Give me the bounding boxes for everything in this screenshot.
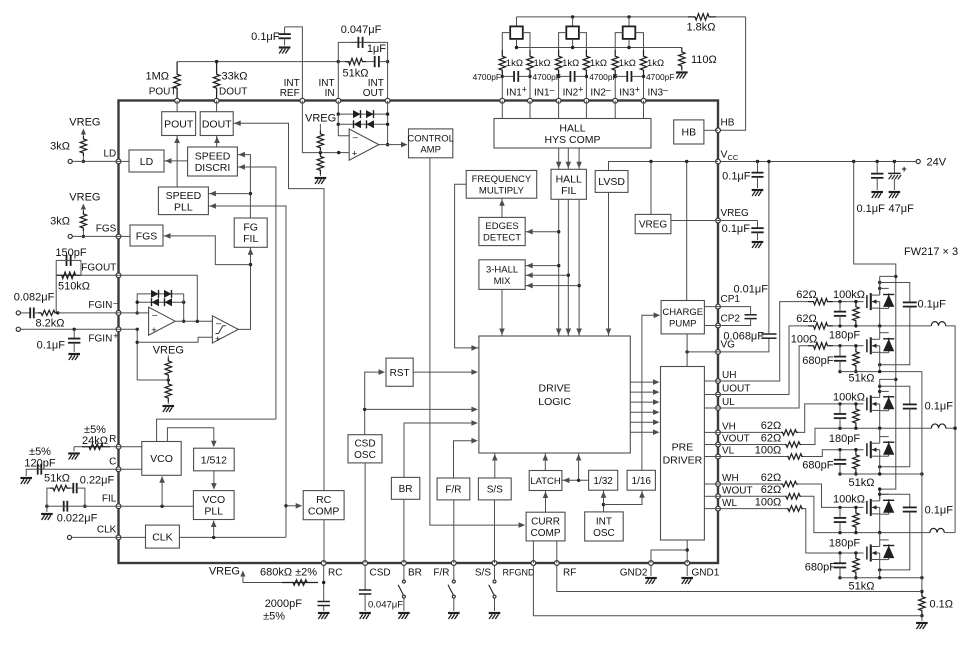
wire R pin to VCO [119,446,142,448]
terminal CLK input [67,535,71,539]
wire FIL to VCO and VCO PLL [119,505,194,507]
pin HB [716,128,721,133]
pin RC [321,561,326,566]
pin RF [554,561,559,566]
svg-text:VREG: VREG [69,117,100,129]
svg-text:HB: HB [721,118,735,129]
block LATCH [529,471,562,491]
FIL loop filter: 51kΩ + 0.22uF branch [47,488,50,506]
svg-text:+: + [215,334,221,345]
svg-text:0.1μF: 0.1μF [251,31,280,43]
wire INT IN to A3 - [338,101,349,136]
resistor 33kΩ (DOUT) [213,62,219,101]
svg-text:150pF: 150pF [55,247,86,259]
svg-text:–: – [663,85,668,95]
svg-text:100Ω: 100Ω [791,334,818,346]
block BR [391,477,419,499]
svg-text:RST: RST [390,368,410,379]
pin IN1− [528,98,533,103]
svg-text:CONTROL: CONTROL [407,133,453,144]
svg-text:FG: FG [243,222,258,234]
wire FGIN- to A1 [136,311,139,314]
svg-text:DETECT: DETECT [483,233,521,244]
wire BR to DRIVE LOGIC [404,423,472,477]
pin GND1 [685,561,690,566]
capacitor 0.082uF (FGIN-) [20,312,26,314]
capacitor 680pF + resistor 51kΩ (V low gate) [838,448,841,451]
resistor 1kΩ col1 [499,50,505,76]
wire hall pin to HYS COMP [558,101,560,119]
svg-text:3kΩ: 3kΩ [50,141,70,153]
svg-text:1MΩ: 1MΩ [145,71,169,83]
block RC COMP [303,491,344,520]
wire hall pin to HYS COMP [643,101,645,119]
capacitor 4700pF IN3 [615,75,627,77]
svg-text:PUMP: PUMP [669,318,696,329]
wire HYS COMP to HALL FIL [567,148,569,169]
wire VOUT + resistor 62Ω [718,444,785,446]
wire GND2 tie [651,550,687,563]
pin INT IN [336,98,341,103]
svg-text:OSC: OSC [593,528,615,539]
switch S/S [494,565,496,579]
wire EDGES DETECT to FREQ MULTIPLY [501,198,503,217]
svg-text:680pF: 680pF [805,562,836,574]
wire BR to pin [403,499,405,563]
wire LVSD to DRIVE LOGIC [608,192,610,336]
wires DRIVE LOGIC to PRE DRIVER [630,381,654,383]
pin IN1+ [500,98,505,103]
wires PRE DRIVER outputs to pins [704,380,718,382]
svg-text:LOGIC: LOGIC [538,396,571,408]
wire hall pin to HYS COMP [501,101,503,119]
svg-text:4700pF: 4700pF [646,72,674,82]
U source rail [840,371,922,373]
op-amp A1 FG amplifier [149,307,176,335]
svg-text:FW217 × 3: FW217 × 3 [904,246,958,258]
svg-text:LD: LD [104,149,117,160]
svg-text:VOUT: VOUT [722,434,750,445]
wire HALL FIL tap to EDGES DETECT [557,230,560,233]
pin WH [716,482,721,487]
wire CURR COMP to RF pin [556,541,558,563]
wire HALL FIL to DRIVE LOGIC [567,199,569,336]
svg-text:CLK: CLK [152,531,172,543]
svg-text:INT: INT [596,516,612,527]
pin CP1 [716,304,721,309]
resistor 1MΩ (POUT) [174,62,180,101]
svg-text:110Ω: 110Ω [691,54,717,66]
wire DOUT box to pin [216,101,218,112]
capacitor 180pF + resistor 100kΩ (W high gate) [838,506,841,509]
block VCO PLL [193,491,234,520]
wire HYS COMP to HALL FIL [578,148,580,169]
capacitor 180pF + resistor 100kΩ (U high gate) [838,300,841,303]
svg-text:IN2: IN2 [563,88,579,99]
svg-text:UOUT: UOUT [722,384,750,395]
svg-text:1kΩ: 1kΩ [506,58,523,69]
wire F/R to pin [453,500,455,563]
wire A2 output to FG FIL [238,247,250,329]
RC timing network VREG/680k/2000pF [323,565,325,597]
svg-text:VCO: VCO [202,494,225,506]
pin IN2− [584,98,589,103]
svg-text:CC: CC [728,153,739,162]
VCC rail to 24V [718,161,916,163]
svg-text:SPEED: SPEED [195,151,231,163]
svg-text:1kΩ: 1kΩ [534,58,551,69]
svg-text:HB: HB [682,127,697,139]
wire VCO to 1/512 [167,428,213,444]
svg-text:4700pF: 4700pF [473,72,501,82]
op-amp A3 integrator [349,129,379,160]
svg-text:1kΩ: 1kΩ [590,58,607,69]
svg-text:51kΩ: 51kΩ [849,580,875,592]
wire hall pin to HYS COMP [614,101,616,119]
terminal FGIN- input [16,311,20,315]
wire S/S to pin [494,500,496,563]
svg-text:0.047μF: 0.047μF [341,24,382,36]
svg-text:UL: UL [722,397,735,408]
inductor motor V winding [931,424,945,428]
svg-text:MIX: MIX [494,276,512,287]
block 3-HALL MIX [479,260,525,290]
svg-text:0.1Ω: 0.1Ω [930,599,954,611]
block CSD OSC [348,435,382,463]
block CURR COMP [526,512,565,541]
svg-text:PLL: PLL [204,506,223,518]
body diode U high [880,287,889,289]
pin FGS [116,234,121,239]
svg-text:POUT: POUT [164,118,194,130]
switch F/R [453,565,455,579]
svg-text:62Ω: 62Ω [796,313,816,325]
svg-text:100Ω: 100Ω [755,444,782,456]
transistor Q4 FW217 V low [866,443,868,456]
wire RF sense line [557,565,922,591]
wire RC COMP to DOUT box [233,123,324,490]
body diode W high [880,493,889,495]
svg-text:62Ω: 62Ω [761,432,781,444]
integrator network 51k/1uF/0.047uF [337,60,340,63]
svg-text:+: + [352,148,358,159]
svg-text:FGIN: FGIN [88,334,112,345]
wire RFGND return line [533,565,922,615]
svg-text:–: – [353,132,358,142]
svg-text:680pF: 680pF [802,459,833,471]
svg-text:1/16: 1/16 [632,476,652,487]
ground GND1 [686,565,688,576]
svg-text:CSD: CSD [354,439,375,450]
svg-text:24V: 24V [927,157,947,169]
svg-text:24kΩ: 24kΩ [82,435,108,447]
svg-text:–: – [550,85,555,95]
wire VCO out to SPEED DISCRI riser [157,419,276,441]
wire hall col6 to pin [643,76,645,100]
wire VCC to LVSD [609,162,719,171]
pin SS [492,561,497,566]
svg-text:CP2: CP2 [721,314,741,325]
wire U drain tie to supply [880,275,896,277]
wire 1/32 to LATCH [562,479,589,481]
wire CURR COMP to LATCH [545,491,547,513]
snubber capacitor 0.1uF W [880,494,910,505]
wire CSD OSC to DRIVE LOGIC [365,408,473,410]
hall sensor H3 [627,15,630,18]
V source rail [840,473,922,475]
wire SPEED PLL to POUT [176,136,178,188]
FGOUT feedback 510kΩ [81,274,119,276]
transistor Q3 FW217 V high [866,397,868,410]
svg-text:RC: RC [316,494,332,506]
wire CHARGE PUMP to VCC [686,162,688,301]
svg-text:CP1: CP1 [721,294,741,305]
svg-text:OUT: OUT [363,88,384,99]
wire A1 output [175,320,212,322]
wire S/S to DRIVE LOGIC [494,453,496,478]
svg-text:F/R: F/R [445,485,461,496]
svg-text:+: + [578,85,583,95]
wire to SPEED PLL input1 [208,193,250,195]
resistor 110Ω [679,48,685,71]
svg-text:62Ω: 62Ω [761,472,781,484]
capacitor 0.1uF (FGIN+) [73,328,76,331]
sense rail vertical [921,372,923,592]
svg-text:GND2: GND2 [620,568,648,579]
block DRIVE LOGIC [479,336,630,453]
resistor 1kΩ col2 [527,50,533,76]
svg-text:0.1μF: 0.1μF [925,505,954,517]
pin IN3+ [613,98,618,103]
svg-text:BR: BR [408,568,422,579]
capacitor 680pF + resistor 51kΩ (W low gate) [838,551,841,554]
capacitor 4700pF IN1 [502,75,514,77]
block FG FIL [234,218,267,247]
transistor Q1 FW217 U high [866,295,868,308]
svg-text:CHARGE: CHARGE [662,307,703,318]
block SPEED PLL [158,187,208,215]
wire VH + resistor 62Ω [718,431,781,433]
wire CP2 [704,325,718,327]
svg-text:62Ω: 62Ω [796,289,816,301]
wire 3-HALL MIX to DRIVE LOGIC [501,289,503,336]
pin IN3− [641,98,646,103]
pin INT REF [300,98,305,103]
wire WL + resistor 100Ω [718,508,787,510]
svg-text:3kΩ: 3kΩ [50,216,70,228]
svg-text:VREG: VREG [639,220,668,231]
wire PRE DRIVER ground to GND1 [686,540,688,563]
svg-text:LD: LD [140,156,154,168]
block LD [129,150,164,172]
block DOUT [200,112,233,136]
svg-text:RF: RF [563,568,576,579]
capacitor 0.068uF (VG-VCC) [718,338,769,352]
block EDGES DETECT [479,217,525,245]
wire CONTROL AMP to CURR COMP [430,158,520,525]
wire hall col1 to pin [501,76,503,100]
svg-text:PLL: PLL [174,201,193,213]
svg-text:0.022μF: 0.022μF [57,513,98,525]
svg-text:SPEED: SPEED [166,190,202,202]
svg-text:100kΩ: 100kΩ [833,289,865,301]
resistor 1kΩ col3 [555,50,561,76]
block SPEED DISCRI [188,147,238,176]
svg-text:FGS: FGS [136,230,158,242]
wire RC COMP to RC pin [323,520,325,563]
svg-text:VH: VH [722,422,736,433]
wire UOUT to phase row [718,326,808,395]
block CLK [146,525,180,548]
pin FIL [116,504,121,509]
svg-text:OSC: OSC [354,450,376,461]
svg-text:100Ω: 100Ω [755,496,782,508]
svg-text:1/32: 1/32 [593,476,613,487]
wire INT REF to + node [302,101,349,153]
svg-text:DRIVE: DRIVE [539,383,571,395]
comparator A2 with hysteresis [212,316,238,343]
block RST [386,358,413,386]
wire hall col4 to pin [585,76,587,100]
svg-text:1kΩ: 1kΩ [619,58,636,69]
svg-text:VREG: VREG [209,566,240,578]
inductor motor U winding [931,322,945,326]
svg-text:1kΩ: 1kΩ [647,58,664,69]
svg-text:VREG: VREG [721,208,750,219]
pin IN2+ [556,98,561,103]
pin VCC [716,159,721,164]
svg-text:BR: BR [399,484,413,495]
pin VH [716,430,721,435]
wire FGOUT net to FGIN- [55,275,57,313]
transistor Q5 FW217 W high [866,501,868,514]
wire HB riser [718,17,746,130]
svg-text:AMP: AMP [420,144,441,155]
terminal LD input [68,159,72,163]
svg-text:LVSD: LVSD [598,176,625,188]
body diode V high [880,390,889,392]
wire HB box to pin [704,129,718,131]
svg-text:GND1: GND1 [692,568,720,579]
pin VG [716,350,721,355]
svg-text:VREG: VREG [305,113,336,125]
svg-text:510kΩ: 510kΩ [58,281,90,293]
capacitor 680pF + resistor 51kΩ (U low gate) [838,344,841,347]
wire INT OUT to A3 output [387,101,389,145]
ground for 0.1uF INT REF cap [279,46,291,48]
svg-text:DOUT: DOUT [219,87,247,98]
svg-text:HALL: HALL [559,122,585,134]
snubber capacitor 0.1uF V [880,386,910,402]
pin VOUT [716,442,721,447]
pin BR [402,561,407,566]
resistor 62Ω UH [808,298,833,304]
svg-text:CLK: CLK [97,525,117,536]
block HALL FIL [551,169,586,199]
wire hall pin to HYS COMP [585,101,587,119]
capacitor 150pF (FGOUT) [80,260,82,275]
wire SPEED DISCRI to LD [164,160,188,162]
wire CLK node to RC COMP [286,505,297,507]
A1 feedback diodes [137,294,184,313]
svg-text:RC: RC [328,568,342,579]
svg-text:±5%: ±5% [263,611,285,623]
svg-text:+: + [522,85,527,95]
inductor motor W winding [930,528,944,532]
svg-text:POUT: POUT [149,87,177,98]
resistor 0.1Ω sense [920,590,923,593]
svg-text:180pF: 180pF [829,537,860,549]
svg-text:LATCH: LATCH [530,476,561,487]
svg-text:0.047μF: 0.047μF [368,600,403,611]
svg-text:EDGES: EDGES [485,221,518,232]
svg-text:+: + [635,85,640,95]
wire branch to FGS [163,236,251,265]
svg-text:CURR: CURR [531,516,560,527]
wire latch node to DRIVE LOGIC [578,453,580,480]
svg-text:FGIN: FGIN [88,300,112,311]
svg-text:±5%: ±5% [29,446,51,458]
svg-text:IN: IN [325,88,335,99]
svg-text:F/R: F/R [433,568,449,579]
svg-text:IN1: IN1 [506,88,522,99]
wire FG FIL to SPEED DISCRI input1 [237,155,250,218]
block HALL HYS COMP [494,119,651,149]
wire POUT box to pin [176,101,178,112]
wire LATCH to DRIVE LOGIC [544,453,546,471]
A3 feedback diodes [338,113,387,115]
wire VREG box to pin [671,220,718,222]
svg-text:–: – [113,298,118,308]
block INT OSC [585,512,624,541]
svg-text:PRE: PRE [672,442,694,454]
resistor 24kΩ (R pin) [110,446,119,448]
wire V drain tie [880,379,896,386]
wire INT OSC to dividers [603,505,605,512]
svg-text:0.1μF: 0.1μF [37,340,66,352]
wire LD pin [119,160,130,162]
hall sensor H1 [516,17,518,27]
svg-text:FIL: FIL [102,494,117,505]
block VREG regulator [635,214,671,233]
svg-text:FREQUENCY: FREQUENCY [472,174,532,185]
wire CLK pin to CLK block [119,536,146,538]
svg-text:–: – [216,318,221,328]
svg-text:WOUT: WOUT [722,486,753,497]
svg-text:±5%: ±5% [84,424,106,436]
wire CLK out [179,536,286,538]
wire UL to low gate row [718,346,808,408]
capacitor 120pF (C pin) [46,468,119,470]
svg-text:51kΩ: 51kΩ [343,68,369,80]
svg-text:100kΩ: 100kΩ [833,494,865,506]
wire VL + resistor 100Ω [718,456,787,458]
svg-text:51kΩ: 51kΩ [849,372,875,384]
block FREQUENCY MULTIPLY [466,171,537,199]
resistor 1kΩ col4 [583,50,589,76]
svg-text:0.082μF: 0.082μF [14,291,55,303]
svg-text:62Ω: 62Ω [761,420,781,432]
capacitor 4700pF IN2 [559,75,571,77]
wire CURR COMP to RFGND pin [532,541,534,563]
wire WOUT + resistor 62Ω [718,495,785,497]
capacitor 1uF (series) [366,61,375,63]
wires HALL FIL taps to 3-HALL MIX [557,264,560,267]
wire CSD OSC to RST [365,372,380,435]
W source rail [840,577,922,579]
resistor 100Ω UL [808,343,833,349]
svg-text:1μF: 1μF [367,43,386,55]
